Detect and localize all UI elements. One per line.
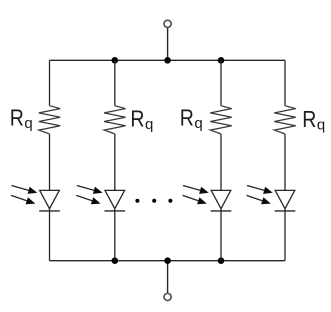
svg-text:q: q bbox=[145, 116, 153, 133]
resistor Rq branch 2 bbox=[104, 106, 125, 134]
top terminal lead wire bbox=[167, 28, 169, 60]
label Rq branch 4 bbox=[302, 107, 325, 134]
light arrow 2 into D2 bbox=[75, 192, 102, 207]
light arrow 1 into D4 bbox=[246, 182, 274, 196]
junction dot top rail at terminal bbox=[164, 57, 171, 64]
bottom rail wire bbox=[50, 260, 286, 262]
junction dot bottom rail at branch 3 bbox=[218, 257, 225, 264]
ellipsis dot 1 bbox=[135, 199, 139, 203]
svg-text:q: q bbox=[24, 115, 32, 132]
photodiode D4 cathode bar bbox=[275, 210, 296, 212]
resistor Rq branch 4 bbox=[274, 106, 295, 134]
light arrow 2 into D4 bbox=[245, 192, 272, 207]
svg-text:R: R bbox=[302, 107, 316, 133]
svg-text:q: q bbox=[317, 116, 325, 133]
wire resistor R2 to photodiode D2 bbox=[114, 134, 116, 191]
photodiode D1 triangle bbox=[40, 190, 60, 208]
svg-text:R: R bbox=[10, 105, 24, 131]
label Rq branch 3 bbox=[180, 105, 203, 132]
bottom terminal lead wire bbox=[167, 261, 169, 293]
junction dot top rail at branch 2 bbox=[112, 57, 119, 64]
wire photodiode D2 to bottom rail bbox=[114, 209, 116, 261]
top terminal circle bbox=[164, 20, 171, 27]
junction dot top rail at branch 3 bbox=[218, 57, 225, 64]
svg-text:q: q bbox=[194, 115, 202, 132]
wire top rail to resistor R4 bbox=[284, 60, 286, 105]
wire resistor R4 to photodiode D4 bbox=[284, 134, 286, 191]
wire resistor R3 to photodiode D3 bbox=[220, 134, 222, 191]
ellipsis dot 3 bbox=[168, 199, 172, 203]
light arrow 2 into D1 bbox=[10, 192, 37, 207]
wire top rail to resistor R3 bbox=[220, 60, 222, 105]
wire photodiode D4 to bottom rail bbox=[284, 209, 286, 261]
light arrow 2 into D3 bbox=[181, 192, 208, 207]
svg-text:R: R bbox=[130, 106, 144, 132]
photodiode D2 cathode bar bbox=[105, 210, 126, 212]
photodiode D3 cathode bar bbox=[211, 210, 232, 212]
wire photodiode D3 to bottom rail bbox=[220, 209, 222, 261]
top rail wire bbox=[50, 59, 286, 61]
photodiode D1 cathode bar bbox=[39, 210, 60, 212]
junction dot bottom rail at branch 2 bbox=[112, 257, 119, 264]
wire photodiode D1 to bottom rail bbox=[49, 209, 51, 261]
photodiode D2 triangle bbox=[105, 190, 125, 208]
ellipsis dot 2 bbox=[152, 199, 156, 203]
wire top rail to resistor R1 bbox=[49, 60, 51, 105]
junction dot bottom rail at terminal bbox=[164, 257, 171, 264]
resistor Rq branch 3 bbox=[210, 106, 231, 134]
photodiode D3 triangle bbox=[211, 190, 231, 208]
label Rq branch 2 bbox=[130, 106, 153, 133]
light arrow 1 into D2 bbox=[76, 182, 104, 196]
bottom terminal circle bbox=[164, 293, 171, 300]
wire resistor R1 to photodiode D1 bbox=[49, 134, 51, 191]
light arrow 1 into D1 bbox=[11, 182, 39, 196]
resistor Rq branch 1 bbox=[39, 106, 60, 134]
label Rq branch 1 bbox=[10, 105, 33, 132]
svg-text:R: R bbox=[180, 105, 194, 131]
wire top rail to resistor R2 bbox=[114, 60, 116, 105]
light arrow 1 into D3 bbox=[182, 182, 210, 196]
photodiode D4 triangle bbox=[275, 190, 295, 208]
